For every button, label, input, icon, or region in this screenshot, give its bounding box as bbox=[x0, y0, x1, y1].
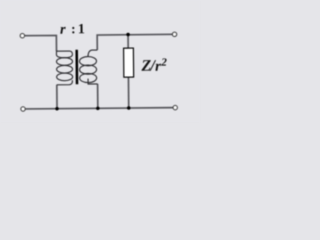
terminal top-left bbox=[20, 33, 24, 37]
junction dot top impedance bbox=[126, 33, 130, 37]
terminal bottom-left bbox=[21, 107, 25, 111]
secondary top entry elbow bbox=[88, 50, 97, 57]
primary bottom exit elbow bbox=[57, 80, 73, 85]
svg-text:r:1: r:1 bbox=[60, 21, 85, 38]
wire top-right: secondary top to right terminal bbox=[97, 34, 173, 50]
wire top-left: terminal to transformer primary top bbox=[25, 35, 57, 51]
junction dot bottom secondary bbox=[96, 107, 100, 111]
wire impedance bottom lead bbox=[127, 77, 129, 108]
transformer T1 primary winding bbox=[56, 51, 72, 85]
junction dot bottom impedance bbox=[127, 106, 131, 110]
wire secondary bottom lead bbox=[97, 84, 99, 108]
transformer T1 secondary winding bbox=[79, 50, 97, 84]
impedance Z/r^2 box bbox=[124, 48, 134, 77]
secondary bottom exit elbow bbox=[88, 79, 98, 84]
junction dot bottom primary bbox=[55, 107, 59, 111]
wire impedance top lead bbox=[127, 35, 129, 48]
wire primary bottom lead bbox=[56, 85, 58, 109]
wire bottom rail bbox=[25, 108, 173, 109]
terminal bottom-right bbox=[173, 105, 177, 109]
terminal top-right bbox=[172, 32, 176, 36]
transformer core bbox=[75, 50, 78, 84]
primary loop 1 (D-shape, flat top joining elbow) bbox=[56, 51, 72, 58]
